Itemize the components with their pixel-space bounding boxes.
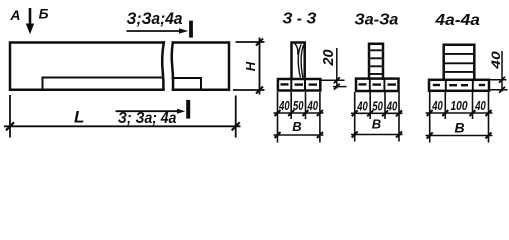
svg-text:В: В — [292, 119, 301, 134]
svg-text:40: 40 — [474, 99, 485, 113]
svg-text:40: 40 — [307, 99, 318, 113]
svg-text:В: В — [454, 120, 464, 136]
svg-text:40: 40 — [386, 99, 397, 113]
svg-text:L: L — [74, 107, 84, 126]
svg-text:100: 100 — [451, 99, 468, 113]
svg-text:З; За; 4а: З; За; 4а — [118, 110, 177, 127]
svg-text:З - З: З - З — [282, 11, 316, 28]
svg-text:40: 40 — [491, 50, 503, 70]
svg-text:50: 50 — [372, 99, 383, 113]
svg-text:4а-4а: 4а-4а — [434, 12, 480, 29]
svg-text:40: 40 — [278, 99, 289, 113]
svg-text:З;За;4а: З;За;4а — [127, 9, 183, 28]
svg-text:Б: Б — [39, 6, 49, 22]
svg-text:40: 40 — [431, 99, 442, 113]
svg-text:А: А — [9, 7, 20, 23]
svg-text:Н: Н — [243, 61, 258, 71]
svg-text:50: 50 — [293, 99, 304, 113]
svg-text:За-За: За-За — [354, 11, 398, 28]
svg-text:40: 40 — [356, 99, 367, 113]
svg-text:20: 20 — [321, 50, 337, 67]
svg-text:В: В — [372, 117, 381, 132]
